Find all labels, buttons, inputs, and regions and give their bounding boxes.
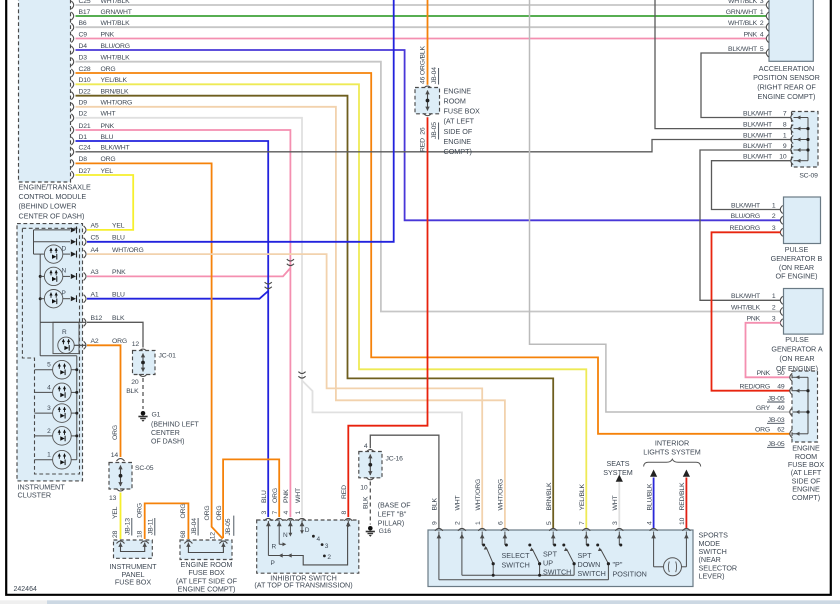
svg-text:SPT: SPT (543, 550, 558, 559)
cluster gauge circle 3 (35, 412, 53, 414)
select switch arm (486, 547, 493, 575)
svg-text:9: 9 (783, 143, 787, 150)
cluster diode circle P (40, 298, 44, 300)
svg-text:COMPT): COMPT) (444, 147, 472, 156)
svg-text:PNK: PNK (283, 489, 290, 503)
svg-text:12: 12 (132, 341, 140, 348)
svg-text:BLU: BLU (261, 490, 268, 503)
inhibitor switch box (257, 520, 359, 573)
wire 46 ORG/BLK from top edge (427, 0, 429, 85)
svg-text:WHT/ORG: WHT/ORG (101, 100, 133, 107)
svg-text:50: 50 (777, 370, 785, 377)
wire C24 BLK/WHT to SC-09 pin 1 (76, 140, 792, 152)
svg-text:RED 26: RED 26 (419, 127, 426, 152)
svg-text:LEFT "B": LEFT "B" (378, 512, 407, 519)
ECM pin C25 WHT/BLK (71, 1, 73, 9)
instrument cluster inner box (22, 228, 79, 474)
wire D21 PNK to inhibitor switch pin 4 (76, 130, 291, 517)
svg-text:3: 3 (47, 405, 51, 412)
wire WHT from top edge to fuse box GRY 49 (530, 0, 791, 412)
svg-text:D27: D27 (79, 168, 91, 175)
svg-text:BLU/ORG: BLU/ORG (731, 213, 760, 220)
instrument panel fuse box (114, 540, 153, 558)
svg-text:BLK: BLK (112, 315, 125, 322)
svg-text:(BEHIND LOWER: (BEHIND LOWER (19, 202, 77, 211)
svg-text:BLK/WHT: BLK/WHT (101, 145, 130, 152)
instrument cluster outer box (17, 224, 83, 481)
wire D9 WHT/ORG to sports mode switch pin 6 (76, 107, 505, 528)
svg-text:ORG: ORG (216, 506, 223, 521)
wire A2 ORG to SC-05 (87, 345, 121, 457)
svg-text:N: N (62, 268, 67, 275)
svg-text:WHT: WHT (455, 496, 462, 511)
cluster pin C5 BLU (84, 238, 86, 246)
svg-text:SIDE OF: SIDE OF (444, 127, 473, 136)
svg-text:N: N (283, 532, 288, 539)
ECM pin D9 WHT/ORG (71, 103, 73, 111)
svg-text:2: 2 (760, 20, 764, 27)
svg-text:FUSE BOX: FUSE BOX (444, 107, 481, 116)
pulse generator B pin 3 RED/ORG (780, 228, 782, 236)
svg-text:SPT: SPT (578, 551, 593, 560)
svg-text:3: 3 (325, 543, 329, 550)
sports mode bus lines (439, 579, 609, 581)
ECM pin D8 ORG (71, 159, 73, 167)
APS pin 2 WHT/BLK (766, 23, 768, 31)
wire B12 BLK to JC-01 (87, 322, 143, 347)
svg-text:(AT LEFT: (AT LEFT (444, 116, 475, 125)
svg-text:10: 10 (360, 485, 368, 492)
svg-text:POSITION: POSITION (613, 570, 647, 579)
wire SC-09 pin 10 to pulse generator B pin 1 (712, 161, 792, 210)
cluster gauge circle 4 (35, 391, 53, 393)
ECM pin D21 PNK (71, 126, 73, 134)
svg-text:G1: G1 (152, 412, 161, 419)
sports mode switch pin 4 BLU/BLK (650, 528, 658, 530)
svg-text:RED/ORG: RED/ORG (740, 384, 770, 391)
svg-text:P: P (62, 290, 66, 297)
svg-text:BLK/WHT: BLK/WHT (743, 143, 772, 150)
svg-text:SEATS: SEATS (606, 459, 629, 468)
svg-text:R: R (62, 329, 67, 336)
svg-text:4: 4 (646, 521, 653, 525)
wire D4 BLU/ORG to pulse generator B pin 2 (76, 50, 781, 220)
svg-text:CLUSTER: CLUSTER (18, 490, 52, 499)
svg-text:BLK: BLK (362, 496, 369, 509)
svg-text:49: 49 (777, 384, 785, 391)
ECM connector box (engine/transaxle control module) (19, 0, 71, 182)
svg-text:12: 12 (210, 532, 217, 540)
svg-text:13: 13 (109, 495, 117, 502)
svg-text:JB-04: JB-04 (431, 67, 438, 84)
APS pin 1 GRN/WHT (766, 12, 768, 20)
SC-09 pin 10 BLK/WHT (791, 157, 793, 165)
svg-text:BLU: BLU (101, 134, 114, 141)
svg-text:PNK: PNK (757, 370, 771, 377)
svg-text:BLU: BLU (112, 235, 125, 242)
svg-text:BLK/WHT: BLK/WHT (743, 154, 772, 161)
svg-text:D2: D2 (79, 111, 88, 118)
wire ORG instrument panel fuse box pin 18 to engine room fuse box pin 68 (145, 503, 189, 539)
sports mode switch pin 3 WHT (615, 528, 623, 530)
ECM pin B17 GRN/WHT (71, 12, 73, 20)
svg-text:ORG: ORG (112, 338, 127, 345)
cluster gauge circle 1 (35, 459, 53, 461)
sports mode switch pin 6 WHT/ORG (501, 528, 509, 530)
ECM pin D1 BLU (71, 137, 73, 145)
svg-text:3: 3 (261, 511, 268, 515)
svg-text:6: 6 (498, 521, 505, 525)
svg-text:GENERATOR B: GENERATOR B (771, 254, 823, 263)
svg-text:ENGINE COMPT): ENGINE COMPT) (758, 92, 816, 101)
svg-text:JB-05: JB-05 (768, 441, 785, 448)
svg-text:10: 10 (779, 154, 787, 161)
svg-text:D: D (62, 245, 67, 252)
svg-text:WHT/BLK: WHT/BLK (101, 20, 131, 27)
svg-text:D3: D3 (79, 55, 88, 62)
svg-text:B6: B6 (79, 20, 87, 27)
wire 20 BLK dashed to ground G1 (142, 378, 144, 409)
svg-text:4: 4 (283, 511, 290, 515)
svg-text:YEL: YEL (112, 506, 119, 519)
svg-text:R: R (272, 543, 277, 550)
splice on BLU wire (265, 282, 272, 284)
svg-text:GRN/WHT: GRN/WHT (101, 9, 132, 16)
svg-text:JB-13: JB-13 (125, 518, 132, 535)
sports mode switch pin 7 YEL/BLK (582, 528, 590, 530)
wire BLK sports pin 9 to JC-16 (370, 435, 439, 528)
engine room fuse box top connector (424, 86, 432, 88)
svg-text:1: 1 (783, 132, 787, 139)
inhibitor pin 3 BLU (264, 518, 272, 520)
wire BLK dashed to ground G16 (369, 482, 371, 525)
sports mode switch pin 9 BLK (435, 528, 443, 530)
APS pin 5 BLK/WHT (766, 49, 768, 57)
bottom browser strip (0, 600, 47, 604)
cluster gauge circle 2 (35, 435, 53, 437)
svg-text:YEL: YEL (101, 168, 114, 175)
svg-text:D21: D21 (79, 123, 91, 130)
pulse generator B pin 1 BLK/WHT (780, 206, 782, 214)
svg-text:BLK: BLK (126, 388, 139, 395)
wire D3 WHT/BLK to pulse generator A pin 2 (76, 62, 781, 312)
svg-text:B12: B12 (91, 315, 103, 322)
svg-text:8: 8 (341, 511, 348, 515)
ground G1 (141, 411, 146, 416)
wire WHT branch to sports mode switch pin 2 (302, 381, 462, 529)
ECM pin D3 WHT/BLK (71, 58, 73, 66)
cluster diode circle D (34, 253, 45, 255)
connector SC-09 box (792, 112, 819, 168)
ECM pin C24 BLK/WHT (71, 148, 73, 156)
svg-text:(BEHIND LEFT: (BEHIND LEFT (151, 422, 200, 429)
svg-text:GENERATOR A: GENERATOR A (771, 345, 822, 354)
svg-text:RED: RED (341, 485, 348, 499)
svg-text:28: 28 (112, 530, 119, 538)
svg-text:BLU/ORG: BLU/ORG (101, 43, 130, 50)
svg-text:C25: C25 (79, 0, 91, 5)
svg-text:UP: UP (543, 559, 553, 568)
svg-text:C24: C24 (79, 145, 91, 152)
svg-text:3: 3 (772, 316, 776, 323)
svg-text:1: 1 (475, 521, 482, 525)
svg-text:PNK: PNK (747, 316, 761, 323)
svg-text:PULSE: PULSE (785, 335, 809, 344)
svg-text:JC-01: JC-01 (159, 353, 177, 360)
cluster pin A3 PNK (84, 272, 86, 280)
ECM pin D2 WHT (71, 114, 73, 122)
svg-text:49: 49 (777, 405, 785, 412)
sports mode internal stubs (438, 532, 440, 580)
diode at cluster pin A5 (71, 227, 76, 232)
svg-text:BLK/WHT: BLK/WHT (731, 293, 760, 300)
svg-text:4: 4 (364, 443, 368, 450)
svg-text:RED/ORG: RED/ORG (730, 225, 760, 232)
svg-text:JB-04: JB-04 (191, 518, 198, 535)
svg-text:68: 68 (180, 530, 187, 538)
ECM pin B6 WHT/BLK (71, 23, 73, 31)
svg-text:GRY: GRY (756, 405, 771, 412)
svg-text:RED/BLK: RED/BLK (679, 482, 686, 510)
svg-text:LIGHTS SYSTEM: LIGHTS SYSTEM (643, 448, 701, 457)
engine room fuse box right box (792, 371, 818, 442)
svg-text:5: 5 (47, 362, 51, 369)
cluster diode circle N (40, 275, 44, 277)
svg-text:BRN/BLK: BRN/BLK (546, 482, 553, 510)
svg-text:BLK/WHT: BLK/WHT (728, 46, 757, 53)
wire BLU/BLK pin 4 to interior lights (653, 478, 655, 529)
ECM pin D10 YEL/BLK (71, 80, 73, 88)
wire D2 WHT to inhibitor switch pin 1 (76, 118, 303, 517)
svg-text:A3: A3 (91, 269, 99, 276)
svg-text:SWITCH: SWITCH (543, 568, 571, 577)
pulse generator A pin 2 WHT/BLK (780, 308, 782, 316)
wire BLU branch to cluster pin A1 (87, 291, 268, 299)
inhibitor pin 8 RED (344, 518, 352, 520)
spt up switch arm (528, 544, 531, 547)
wire D1 BLU to inhibitor switch pin 3 (76, 141, 269, 517)
svg-text:GRN/WHT: GRN/WHT (726, 9, 757, 16)
ECM pin C28 ORG (71, 69, 73, 77)
inhibitor pin 7 ORG (275, 518, 283, 520)
svg-text:WHT: WHT (101, 111, 116, 118)
svg-text:CENTER OF DASH): CENTER OF DASH) (19, 211, 85, 220)
lamp circuit (654, 566, 664, 568)
ECM pin D4 BLU/ORG (71, 46, 73, 54)
svg-text:JB-05: JB-05 (768, 396, 785, 403)
svg-text:COMPT): COMPT) (792, 493, 820, 502)
svg-text:D22: D22 (79, 89, 91, 96)
cluster interior bus upper (33, 230, 35, 254)
svg-text:ORG: ORG (272, 488, 279, 503)
svg-text:C28: C28 (79, 66, 91, 73)
cluster pin B12 BLK (84, 318, 86, 326)
wire SC-09 pin 9 to pulse generator A pin 1 (700, 150, 791, 300)
svg-text:A4: A4 (91, 247, 99, 254)
svg-text:20: 20 (131, 379, 139, 386)
pulse generator B pin 2 BLU/ORG (780, 216, 782, 224)
svg-text:ACCELERATION: ACCELERATION (759, 64, 814, 73)
svg-text:BLK: BLK (432, 498, 439, 511)
fuse box right internal bus (807, 377, 809, 434)
svg-text:WHT/BLK: WHT/BLK (728, 20, 758, 27)
fuse box pin 62 ORG (790, 430, 792, 438)
svg-text:D9: D9 (79, 100, 88, 107)
svg-text:2: 2 (47, 428, 51, 435)
inhibitor pin 4 PNK (286, 518, 294, 520)
sports mode switch pin 5 BRN/BLK (549, 528, 557, 530)
fuse box pin 49 RED/ORG (790, 387, 792, 395)
svg-text:ORG: ORG (136, 503, 143, 518)
svg-text:2: 2 (327, 554, 331, 561)
wire D8 ORG to engine room fuse box pin 12 (76, 163, 223, 538)
svg-text:4: 4 (760, 31, 764, 38)
svg-text:1: 1 (772, 293, 776, 300)
svg-text:SWITCH: SWITCH (502, 561, 530, 570)
svg-text:SWITCH: SWITCH (578, 569, 606, 578)
svg-text:242464: 242464 (14, 586, 37, 593)
svg-text:YEL: YEL (112, 223, 125, 230)
svg-text:(BASE OF: (BASE OF (378, 503, 411, 510)
svg-text:BLK/WHT: BLK/WHT (743, 110, 772, 117)
svg-text:A2: A2 (91, 338, 99, 345)
svg-text:JB-05: JB-05 (431, 122, 438, 139)
svg-text:OF DASH): OF DASH) (151, 439, 184, 446)
pulse generator A box (784, 289, 824, 335)
fuse box pin 49 GRY (790, 408, 792, 416)
svg-text:1: 1 (295, 511, 302, 515)
svg-text:WHT/BLK: WHT/BLK (101, 55, 131, 62)
SC-09 pin 9 BLK/WHT (791, 146, 793, 154)
svg-text:DOWN: DOWN (578, 560, 601, 569)
svg-text:ENGINE/TRANSAXLE: ENGINE/TRANSAXLE (19, 182, 91, 191)
sports mode switch pin 2 WHT (458, 528, 466, 530)
svg-text:P: P (271, 560, 275, 567)
ECM pin C9 PNK (71, 35, 73, 43)
wire A4 WHT/ORG to sports mode switch pin 1 (87, 254, 482, 528)
svg-text:7: 7 (783, 110, 787, 117)
svg-text:WHT/BLK: WHT/BLK (731, 304, 761, 311)
cluster R box (53, 322, 79, 353)
svg-text:D1: D1 (79, 134, 88, 141)
svg-text:7: 7 (272, 511, 279, 515)
svg-text:ENGINE: ENGINE (444, 137, 472, 146)
cluster gauge bus (39, 322, 41, 356)
acceleration position sensor box (769, 0, 813, 61)
svg-text:SYSTEM: SYSTEM (603, 468, 633, 477)
svg-text:PULSE: PULSE (785, 245, 809, 254)
svg-text:9: 9 (432, 521, 439, 525)
svg-text:PILLAR): PILLAR) (378, 521, 404, 528)
svg-text:D10: D10 (79, 77, 91, 84)
SC-09 pin 1 BLK/WHT (791, 136, 793, 144)
svg-text:LEVER): LEVER) (699, 572, 725, 581)
svg-text:C5: C5 (91, 235, 100, 242)
svg-text:1: 1 (47, 452, 51, 459)
svg-text:BLK/WHT: BLK/WHT (743, 121, 772, 128)
svg-text:ENGINE: ENGINE (444, 87, 472, 96)
svg-text:JB-03: JB-03 (768, 417, 785, 424)
svg-text:62: 62 (777, 427, 785, 434)
cluster gauge circle 5 (35, 369, 53, 371)
svg-text:A1: A1 (91, 292, 99, 299)
svg-text:(AT TOP OF TRANSMISSION): (AT TOP OF TRANSMISSION) (254, 580, 352, 589)
splice on PNK wire (287, 259, 294, 261)
wire 13 YEL to instrument panel fuse box pin 28 (120, 493, 122, 540)
wire RED/BLK pin 10 to interior lights (685, 478, 687, 529)
wire C9 PNK to APS pin 4 (76, 38, 767, 40)
sports mode switch pin 10 RED/BLK (682, 528, 690, 530)
svg-text:ORG: ORG (101, 66, 116, 73)
inhibitor R contact arm (279, 543, 284, 545)
pulse generator A pin 3 PNK (780, 319, 782, 327)
svg-text:WHT: WHT (295, 488, 302, 503)
ground G16 (368, 526, 373, 531)
svg-text:SELECT: SELECT (502, 551, 531, 560)
svg-text:ORG: ORG (204, 506, 211, 521)
svg-text:5: 5 (546, 521, 553, 525)
cluster pin A2 ORG (84, 341, 86, 349)
pulse generator B box (784, 197, 821, 244)
sports mode switch pin 1 WHT/ORG (478, 528, 486, 530)
svg-text:WHT/ORG: WHT/ORG (475, 479, 482, 511)
svg-text:14: 14 (111, 452, 119, 459)
svg-text:BRN/BLK: BRN/BLK (101, 89, 129, 96)
svg-text:10: 10 (679, 517, 686, 525)
svg-text:G16: G16 (379, 528, 392, 535)
cluster pin A4 WHT/ORG (84, 250, 86, 258)
cluster pin A5 YEL (84, 226, 86, 234)
cluster interior bus lower (39, 254, 41, 322)
svg-text:PNK: PNK (101, 31, 115, 38)
splice on WHT wire (298, 372, 305, 374)
SC-09 pin 8 BLK/WHT (791, 125, 793, 133)
sports mode switch box (428, 530, 693, 587)
svg-text:3: 3 (612, 521, 619, 525)
wire APS pin 5 BLK/WHT to SC-09 pin 7 (701, 53, 791, 118)
svg-text:2: 2 (455, 521, 462, 525)
APS pin 3 WHT/BLK (766, 1, 768, 9)
svg-text:JB-05: JB-05 (225, 518, 232, 535)
svg-text:PNK: PNK (112, 269, 126, 276)
svg-text:B17: B17 (79, 9, 91, 16)
svg-text:D4: D4 (79, 43, 88, 50)
wire RED/ORG pulse generator B pin 3 to fuse box 49 (712, 232, 791, 390)
inhibitor position dots 4 3 2 (312, 535, 315, 538)
wire C5 BLU cluster to top edge (87, 0, 394, 242)
svg-text:D8: D8 (79, 156, 88, 163)
svg-text:WHT: WHT (612, 496, 619, 511)
svg-text:POSITION SENSOR: POSITION SENSOR (753, 73, 820, 82)
svg-text:YEL/BLK: YEL/BLK (579, 484, 586, 511)
svg-text:5: 5 (760, 46, 764, 53)
svg-text:PNK: PNK (744, 31, 758, 38)
svg-text:WHT/ORG: WHT/ORG (498, 479, 505, 511)
svg-text:3: 3 (772, 225, 776, 232)
svg-text:JC-16: JC-16 (386, 456, 404, 463)
svg-text:BLU: BLU (112, 292, 125, 299)
cluster pin A1 BLU (84, 295, 86, 303)
SC-09 internal bus (807, 118, 809, 161)
wire B6 WHT/BLK to APS pin 2 (76, 26, 767, 28)
svg-text:BLU/BLK: BLU/BLK (646, 483, 653, 510)
svg-text:8: 8 (783, 121, 787, 128)
svg-text:FUSE BOX: FUSE BOX (115, 578, 152, 587)
svg-text:(RIGHT REAR OF: (RIGHT REAR OF (757, 83, 816, 92)
svg-text:BLK/WHT: BLK/WHT (743, 132, 772, 139)
wire C28 ORG to engine room fuse box ORG 62 (76, 73, 791, 434)
svg-text:JB-11: JB-11 (148, 518, 155, 535)
